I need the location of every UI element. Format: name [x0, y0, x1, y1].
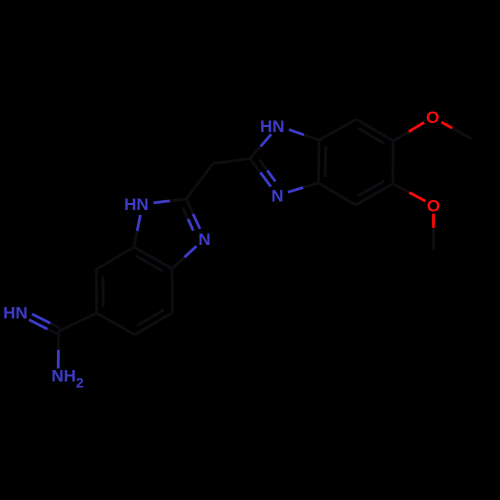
- double bond C2=N3 (right imidazole): [250, 159, 260, 173]
- svg-text:N: N: [198, 230, 210, 249]
- bond C6-O (upper methoxy): [393, 132, 409, 141]
- bond N3-C3a (left imidazole): [184, 246, 196, 257]
- bond C2-CH2 (methylene bridge left): [186, 181, 199, 199]
- svg-text:O: O: [426, 108, 439, 127]
- bond O-CH3 (lower methoxy methyl): [432, 214, 435, 228]
- svg-text:HN: HN: [260, 117, 285, 136]
- svg-text:N: N: [271, 186, 283, 205]
- bond C7-C7a (right benzene ring): [338, 119, 357, 129]
- double bond C6=C7 (right benzene ring): [375, 130, 393, 141]
- bond C5-C6 (left benzene ring): [116, 324, 135, 335]
- bond N3-C3a (right imidazole): [288, 188, 303, 193]
- fusion double bond C3a=C7a (right benzimidazole): [317, 161, 320, 183]
- double bond C2=N3 (left imidazole): [186, 199, 193, 214]
- bond CH2-C2 (methylene bridge right): [213, 161, 232, 164]
- bond C3a-C4 (left benzene ring): [171, 269, 174, 291]
- bond C5-O (lower methoxy): [393, 184, 409, 193]
- fusion double bond C3a=C7a (left benzimidazole): [153, 258, 172, 269]
- bond C7a-N1 (left imidazole): [134, 231, 137, 247]
- svg-text:O: O: [427, 196, 440, 215]
- bond C6-C(amidine): [78, 313, 97, 322]
- svg-text:HN: HN: [124, 195, 149, 214]
- bond C7-C7a (left benzene ring): [96, 258, 115, 269]
- double bond C4=C5 (right benzene ring): [356, 194, 375, 205]
- double bond C6=C7 (left benzene ring): [95, 291, 98, 313]
- double bond C=NH (amidine imine): [50, 323, 60, 328]
- bond C-NH2 (amidine amine): [57, 331, 60, 350]
- bond C3a-C4 (right benzene ring): [318, 183, 337, 194]
- bond N1-C2 (right imidazole): [261, 134, 272, 146]
- bond N1-C2 (left imidazole): [154, 201, 170, 203]
- bond O-CH3 (upper methoxy methyl): [441, 122, 452, 128]
- svg-text:HN: HN: [3, 303, 28, 322]
- double bond C4=C5 (left benzene ring): [154, 312, 173, 323]
- bond C5-C6 (right benzene ring): [391, 162, 394, 184]
- bond C7a-N1 (right imidazole): [304, 135, 319, 140]
